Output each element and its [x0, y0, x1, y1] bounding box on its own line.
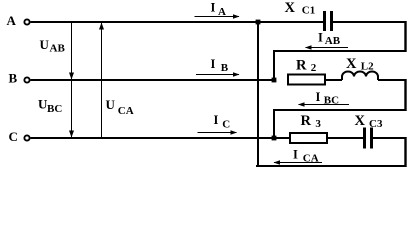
label I_A — [211, 1, 227, 18]
label U_BC — [38, 97, 62, 115]
voltage arrow U_CA (C to A, head up at A) — [99, 23, 104, 138]
wire CA return (y=166) — [256, 165, 407, 167]
wire R3 to C3 — [327, 137, 363, 139]
current arrow I_AB — [305, 45, 348, 50]
svg-text:I: I — [211, 57, 216, 71]
current arrow I_CA — [274, 160, 323, 165]
svg-text:R: R — [296, 57, 307, 73]
svg-text:I: I — [293, 148, 298, 162]
resistor R2 — [288, 75, 325, 85]
svg-text:AB: AB — [50, 43, 66, 55]
terminal B — [24, 77, 29, 82]
capacitor C1 (X_C1) — [325, 11, 332, 31]
node B label — [9, 71, 18, 86]
wire right edge AB branch (x=405) — [404, 21, 406, 52]
label R_2 — [296, 57, 317, 74]
svg-text:X: X — [355, 113, 366, 129]
wire right edge BC branch (x=405) — [404, 79, 406, 111]
svg-text:I: I — [214, 113, 219, 127]
wire BC return (y=110) — [273, 109, 407, 111]
svg-text:U: U — [106, 97, 116, 112]
label I_C — [214, 113, 231, 131]
wire AB return (y=51) — [273, 50, 407, 52]
label X_C3 — [355, 113, 383, 130]
svg-text:I: I — [211, 1, 216, 15]
terminal C — [24, 135, 29, 140]
svg-text:C: C — [222, 119, 230, 131]
svg-text:C1: C1 — [302, 5, 315, 17]
label U_CA — [106, 97, 134, 117]
voltage arrow U_AB (A to B, head down at B) — [69, 23, 74, 137]
svg-text:I: I — [318, 31, 323, 45]
label I_CA — [293, 148, 319, 165]
wire L2 to right edge — [378, 79, 407, 81]
svg-text:L2: L2 — [361, 60, 374, 72]
svg-text:C3: C3 — [369, 118, 383, 130]
svg-text:CA: CA — [303, 152, 319, 164]
current arrow I_A — [195, 14, 240, 19]
wire vertical AB-return to B (x=274) — [273, 51, 275, 80]
label X_C1 — [285, 0, 316, 16]
current arrow I_BC — [298, 102, 349, 107]
svg-text:C: C — [9, 129, 18, 144]
svg-text:A: A — [7, 13, 17, 28]
wire vertical BC-return to C (x=274) — [273, 110, 275, 138]
resistor R3 — [290, 133, 327, 143]
svg-text:I: I — [316, 90, 321, 104]
svg-text:B: B — [221, 62, 229, 74]
svg-text:U: U — [40, 37, 50, 52]
svg-text:X: X — [346, 56, 357, 72]
svg-text:X: X — [285, 0, 296, 16]
label I_B — [211, 57, 229, 74]
wire vertical A-to-CA-return (x=258) — [257, 22, 259, 166]
svg-text:BC: BC — [324, 94, 339, 106]
node A label — [7, 13, 17, 28]
voltage arrow U_BC head (down at C) — [69, 131, 74, 138]
svg-text:3: 3 — [315, 118, 321, 130]
wire cap C1 to right edge — [333, 21, 407, 23]
current arrow I_B — [196, 72, 240, 77]
wire right edge CA branch (x=405) — [404, 137, 406, 167]
wire R2 to L2 — [325, 79, 342, 81]
junction dot on C line — [272, 136, 277, 141]
junction dot on B line — [272, 78, 277, 83]
svg-text:2: 2 — [311, 62, 317, 74]
label U_AB — [40, 37, 66, 54]
inductor L2 (X_L2) — [342, 72, 378, 81]
label R_3 — [301, 113, 322, 130]
svg-text:R: R — [301, 113, 312, 129]
svg-text:CA: CA — [118, 105, 134, 117]
wire phase A bus — [31, 21, 324, 23]
label X_L2 — [346, 56, 374, 73]
current arrow I_C — [198, 130, 238, 135]
terminal A — [24, 19, 29, 24]
svg-text:BC: BC — [47, 103, 62, 115]
node C label — [9, 129, 18, 144]
label I_AB — [318, 31, 341, 47]
wire C3 to right edge — [373, 137, 407, 139]
wire phase B bus — [31, 79, 275, 81]
capacitor C3 (X_C3) — [365, 128, 372, 149]
label I_BC — [316, 90, 340, 106]
junction dot on A line — [256, 20, 261, 25]
svg-text:B: B — [9, 71, 18, 86]
svg-text:A: A — [218, 6, 226, 18]
wire phase C bus — [31, 137, 291, 139]
svg-text:AB: AB — [325, 35, 341, 47]
